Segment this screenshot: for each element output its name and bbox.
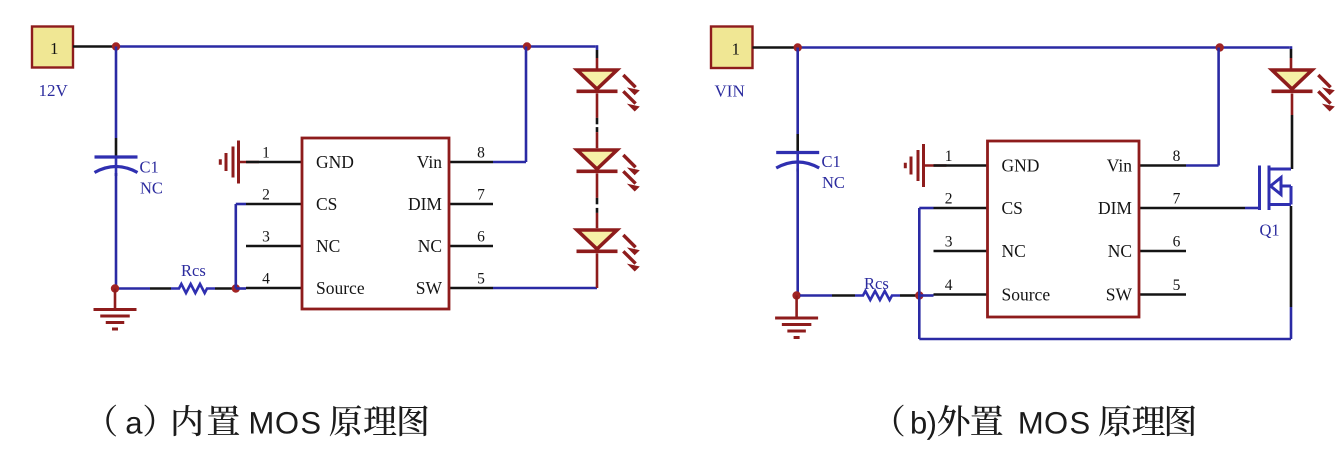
- svg-text:1: 1: [732, 39, 741, 58]
- svg-text:GND: GND: [1002, 156, 1040, 176]
- svg-text:Source: Source: [316, 278, 365, 298]
- svg-text:5: 5: [1173, 277, 1181, 294]
- svg-text:Vin: Vin: [1107, 156, 1132, 176]
- svg-text:1: 1: [50, 39, 59, 58]
- svg-text:DIM: DIM: [1098, 198, 1132, 218]
- svg-text:DIM: DIM: [408, 194, 442, 214]
- svg-text:6: 6: [1173, 234, 1181, 251]
- svg-text:8: 8: [477, 145, 485, 162]
- svg-text:4: 4: [262, 271, 270, 288]
- svg-text:VIN: VIN: [715, 82, 745, 101]
- svg-text:SW: SW: [1106, 285, 1133, 305]
- svg-text:NC: NC: [140, 179, 163, 198]
- svg-text:1: 1: [262, 145, 270, 162]
- svg-text:7: 7: [1173, 191, 1181, 208]
- svg-text:Source: Source: [1002, 285, 1051, 305]
- svg-text:12V: 12V: [39, 81, 69, 100]
- svg-text:C1: C1: [822, 152, 841, 171]
- svg-text:8: 8: [1173, 148, 1181, 165]
- svg-text:SW: SW: [416, 278, 443, 298]
- svg-text:GND: GND: [316, 152, 354, 172]
- svg-text:CS: CS: [1002, 198, 1023, 218]
- svg-text:NC: NC: [1108, 241, 1132, 261]
- svg-text:Rcs: Rcs: [181, 261, 206, 280]
- svg-text:4: 4: [945, 277, 953, 294]
- svg-text:6: 6: [477, 229, 485, 246]
- svg-text:7: 7: [477, 187, 485, 204]
- svg-text:3: 3: [945, 234, 953, 251]
- svg-text:3: 3: [262, 229, 270, 246]
- svg-text:2: 2: [945, 191, 953, 208]
- svg-text:Q1: Q1: [1260, 221, 1280, 240]
- svg-text:NC: NC: [822, 173, 845, 192]
- svg-text:NC: NC: [1002, 241, 1026, 261]
- svg-text:2: 2: [262, 187, 270, 204]
- svg-text:5: 5: [477, 271, 485, 288]
- svg-text:NC: NC: [418, 236, 442, 256]
- svg-text:C1: C1: [140, 158, 159, 177]
- svg-text:NC: NC: [316, 236, 340, 256]
- svg-text:Rcs: Rcs: [864, 274, 889, 293]
- svg-text:Vin: Vin: [417, 152, 442, 172]
- svg-text:CS: CS: [316, 194, 337, 214]
- svg-text:1: 1: [945, 148, 953, 165]
